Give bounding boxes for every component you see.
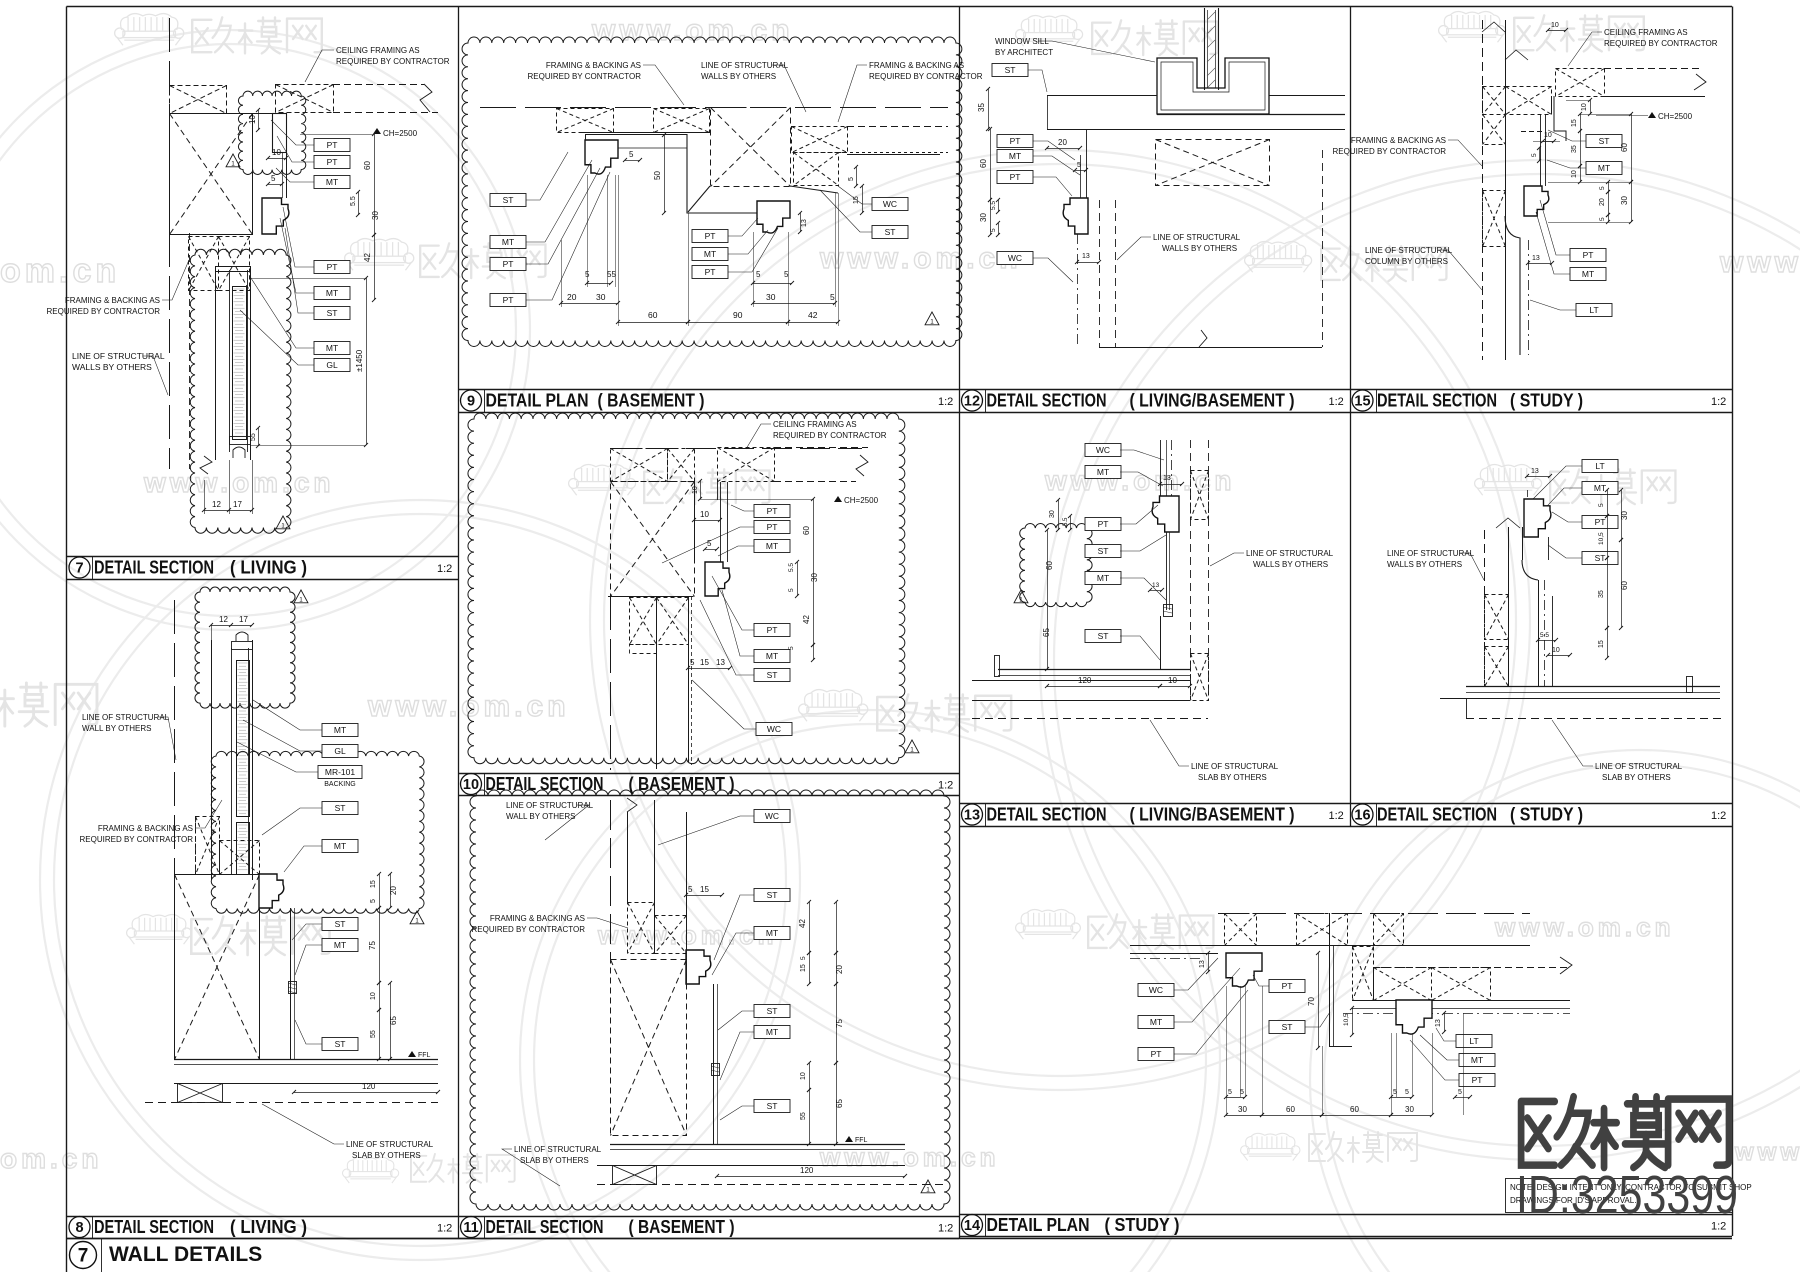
svg-text:5: 5 — [1228, 1089, 1232, 1096]
svg-text:CH=2500: CH=2500 — [383, 129, 418, 138]
svg-text:ST: ST — [767, 1006, 778, 1016]
panel 7 dim 10 vertical — [248, 108, 260, 132]
panel 14 center wall verticals — [1329, 913, 1352, 1047]
panel 7 line-of-structural-walls note — [72, 351, 168, 395]
svg-text:65: 65 — [389, 1016, 398, 1025]
watermark www.om.cn row3 mid — [1044, 465, 1236, 496]
svg-text:1:2: 1:2 — [437, 563, 452, 575]
svg-text:GL: GL — [326, 360, 338, 370]
svg-text:ST: ST — [1098, 631, 1109, 641]
svg-text:MT: MT — [1471, 1055, 1483, 1065]
panel 16 label LT — [1532, 460, 1618, 501]
panel 9 label MT left — [490, 160, 592, 249]
panel 8 warning triangle top — [294, 590, 308, 604]
svg-text:30: 30 — [1238, 1105, 1247, 1114]
watermark sofa+logo row4 mid — [799, 690, 1012, 732]
panel 9 wall band below hatches — [580, 133, 709, 135]
watermark www.om.cn bottom-center — [819, 1142, 1000, 1172]
svg-text:ST: ST — [327, 308, 338, 318]
svg-text:PT: PT — [503, 259, 514, 269]
svg-text:75: 75 — [368, 941, 377, 950]
svg-text:DETAIL SECTION: DETAIL SECTION — [987, 805, 1107, 825]
svg-text:17: 17 — [233, 500, 242, 509]
svg-text:60: 60 — [1286, 1105, 1295, 1114]
panel 9 warning triangle — [925, 312, 939, 326]
svg-text:1: 1 — [926, 1187, 930, 1194]
panel 11 slab hatch box — [613, 1166, 657, 1185]
panel 7 dim 10 horizontal — [266, 148, 288, 160]
panel 13 backing block — [1163, 605, 1173, 617]
svg-text:PT: PT — [327, 140, 338, 150]
svg-text:DETAIL SECTION: DETAIL SECTION — [1377, 391, 1497, 411]
svg-text:30: 30 — [1620, 511, 1629, 520]
panel 15 furring verticals — [1541, 96, 1552, 186]
svg-text:1: 1 — [281, 523, 285, 530]
panel 7 dims 12 17 bottom — [202, 460, 254, 514]
svg-text:WALLS BY OTHERS: WALLS BY OTHERS — [701, 72, 776, 81]
title bar panel 7 — [67, 556, 459, 580]
svg-text:5: 5 — [1599, 217, 1606, 221]
panel 14 dim extension verticals — [1227, 986, 1464, 1115]
panel 12 window frame head — [1157, 58, 1345, 115]
panel 9 hatch cells top-left — [557, 109, 710, 133]
panel 10 long dashed structural line — [610, 596, 612, 770]
panel 14 top dashed band — [1130, 914, 1530, 946]
panel 7 wall finish lines — [283, 152, 287, 198]
panel 15 dim 60 chain — [1548, 112, 1633, 184]
panel 12 mold profile — [1063, 198, 1088, 234]
panel 14 label ST mid — [1269, 1012, 1330, 1034]
svg-text:DETAIL PLAN: DETAIL PLAN — [486, 391, 589, 411]
svg-text:REQUIRED BY CONTRACTOR: REQUIRED BY CONTRACTOR — [336, 57, 450, 66]
svg-text:30: 30 — [766, 292, 776, 302]
panel 10 label WC — [692, 680, 792, 736]
panel 8 line-of-structural-wall note — [82, 713, 176, 760]
svg-text:PT: PT — [1010, 136, 1021, 146]
panel 14 label PT left — [1138, 990, 1248, 1061]
svg-text:15: 15 — [370, 880, 377, 888]
column divider 1 — [458, 7, 460, 1239]
svg-text:15: 15 — [1598, 640, 1605, 648]
panel 15 dim 13 — [1526, 255, 1554, 265]
title bar panel 9 — [458, 389, 959, 413]
panel 9 big hatch square — [711, 108, 791, 187]
svg-text:ST: ST — [1595, 553, 1606, 563]
panel 8 label GL — [243, 720, 358, 758]
svg-text:13: 13 — [1435, 1019, 1442, 1027]
svg-text:5.5: 5.5 — [1063, 517, 1069, 526]
panel 9 label PT left — [490, 168, 600, 271]
panel 11 skirting verticals — [714, 984, 718, 1144]
title bar panel 10 — [458, 773, 959, 796]
svg-text:LINE OF STRUCTURAL: LINE OF STRUCTURAL — [701, 61, 789, 70]
svg-text:5: 5 — [788, 588, 795, 592]
svg-text:1: 1 — [910, 747, 914, 754]
panel 15 dim 10 mid — [1546, 22, 1568, 32]
svg-text:8: 8 — [75, 1220, 83, 1236]
watermark www.om.cn top-center — [591, 14, 794, 47]
panel 7 dim 1450 — [250, 276, 368, 447]
svg-text:www.: www. — [1734, 1139, 1800, 1166]
svg-text:5.5: 5.5 — [350, 196, 357, 206]
panel 11 mid hatch cells — [628, 903, 687, 954]
svg-text:12: 12 — [219, 615, 228, 624]
panel 14 dim row 5s — [1224, 1089, 1472, 1099]
svg-text:PT: PT — [705, 267, 716, 277]
svg-text:FRAMING & BACKING AS: FRAMING & BACKING AS — [546, 61, 641, 70]
svg-text:ST: ST — [503, 195, 514, 205]
panel 15 column note — [1365, 246, 1482, 290]
panel 16 floor lines — [1440, 677, 1720, 699]
svg-text:60: 60 — [1045, 561, 1054, 570]
svg-text:13: 13 — [716, 658, 725, 667]
svg-text:REQUIRED BY CONTRACTOR: REQUIRED BY CONTRACTOR — [869, 72, 983, 81]
svg-text:13: 13 — [1082, 253, 1090, 260]
svg-text:REQUIRED BY CONTRACTOR: REQUIRED BY CONTRACTOR — [47, 307, 161, 316]
svg-text:DETAIL SECTION: DETAIL SECTION — [987, 391, 1107, 411]
svg-text:REQUIRED BY CONTRACTOR: REQUIRED BY CONTRACTOR — [528, 72, 642, 81]
svg-text:35: 35 — [1571, 145, 1578, 153]
panel 13 label WC — [1085, 444, 1164, 461]
panel 12 dim 20 — [1045, 138, 1082, 150]
watermark sofa+logo row5 left — [127, 914, 330, 954]
svg-text:5.5: 5.5 — [1540, 632, 1549, 639]
title bar panel 15 — [1350, 389, 1733, 413]
panel 8 backing block — [288, 982, 297, 994]
svg-text:1:2: 1:2 — [938, 1223, 953, 1235]
panel 13 label ST lower — [1085, 630, 1160, 661]
panel 11 warning triangle — [921, 1180, 935, 1194]
svg-text:13: 13 — [801, 219, 808, 227]
panel 7 label ST 6 — [285, 228, 350, 320]
panel 11 dim 5 15 — [684, 885, 724, 897]
panel 8 label MT lower — [284, 840, 358, 873]
svg-text:PT: PT — [327, 262, 338, 272]
panel 15 left wall hatch cells — [1483, 87, 1552, 247]
svg-text:WC: WC — [765, 811, 779, 821]
svg-text:CEILING FRAMING AS: CEILING FRAMING AS — [336, 46, 420, 55]
svg-text:DETAIL SECTION: DETAIL SECTION — [486, 1217, 604, 1237]
panel 9 label PT left lower — [490, 172, 610, 307]
panel 8 structural wall dashed line — [174, 600, 176, 1059]
svg-text:1: 1 — [930, 319, 934, 326]
panel 15 dim 10 horizontal — [1533, 132, 1560, 143]
panel 7 structural wall dashed line — [169, 18, 171, 469]
title bar panel 16 — [1350, 803, 1733, 827]
svg-text:42: 42 — [808, 310, 818, 320]
panel 12 label MT — [997, 150, 1080, 176]
panel 10 label ST lower — [700, 600, 790, 682]
panel 14 label MT right — [1420, 1035, 1495, 1067]
svg-text:LINE OF STRUCTURAL: LINE OF STRUCTURAL — [514, 1145, 602, 1154]
panel 16 wall hatch cells — [1485, 595, 1509, 687]
panel 9 right dashed wall lines — [838, 127, 948, 155]
panel 15 label MT — [1547, 160, 1622, 175]
svg-text:10: 10 — [1581, 103, 1588, 111]
svg-text:55: 55 — [250, 433, 257, 441]
svg-text:60: 60 — [802, 526, 811, 535]
svg-text:10: 10 — [1544, 132, 1552, 139]
panel 12 label WC — [997, 252, 1073, 283]
svg-text:MT: MT — [502, 237, 514, 247]
svg-text:35: 35 — [1598, 590, 1605, 598]
svg-text:120: 120 — [1078, 676, 1092, 685]
panel 10 warning triangle — [905, 740, 919, 754]
svg-text:MT: MT — [334, 940, 346, 950]
panel 14 label PT mid — [1253, 975, 1305, 993]
svg-text:10: 10 — [800, 1072, 807, 1080]
svg-text:60: 60 — [363, 161, 372, 170]
svg-text:www.om.cn: www.om.cn — [143, 467, 335, 498]
panel 8 dim chain right — [368, 872, 398, 1061]
panel 7 warning triangle bottom — [276, 516, 290, 530]
panel 15 mold profile — [1524, 186, 1549, 216]
panel 15 dim 5 small — [1531, 146, 1541, 163]
panel 14 dim 13 left — [1199, 951, 1210, 974]
svg-text:ST: ST — [1599, 136, 1610, 146]
svg-text:60: 60 — [1620, 143, 1629, 152]
svg-text:( LIVING/BASEMENT ): ( LIVING/BASEMENT ) — [1130, 391, 1295, 411]
panel 12 window mullion — [1205, 8, 1219, 90]
svg-text:PT: PT — [767, 522, 778, 532]
panel 7 cornice mold profile — [262, 198, 289, 234]
svg-text:10,5: 10,5 — [1598, 532, 1605, 545]
panel 15 dim 15 35 10 chain — [1571, 112, 1582, 184]
watermark www.om.cn row5 — [597, 920, 778, 950]
panel 7 label PT 4 — [283, 207, 350, 274]
svg-text:55: 55 — [800, 1112, 807, 1120]
svg-text:ST: ST — [335, 1039, 346, 1049]
svg-text:42: 42 — [802, 615, 811, 624]
panel 15 label PT — [1540, 200, 1606, 262]
svg-text:PT: PT — [767, 506, 778, 516]
svg-text:10: 10 — [700, 510, 709, 519]
svg-text:PT: PT — [1583, 250, 1594, 260]
svg-text:DETAIL SECTION: DETAIL SECTION — [94, 558, 214, 578]
panel 7 revision cloud tall — [190, 249, 291, 533]
panel 11 structural wall note — [506, 801, 594, 840]
panel 12 label ST — [992, 64, 1047, 93]
panel 12 dim 35 — [977, 87, 990, 131]
svg-text:1:2: 1:2 — [1329, 810, 1344, 822]
panel 8 slab lines — [145, 1084, 438, 1103]
svg-text:PT: PT — [767, 625, 778, 635]
svg-text:ST: ST — [335, 803, 346, 813]
svg-text:13: 13 — [1163, 475, 1171, 482]
panel 8 framing-backing note — [80, 800, 223, 844]
svg-text:WC: WC — [767, 724, 781, 734]
panel 13 label MT top — [1085, 466, 1163, 487]
svg-text:WALLS BY OTHERS: WALLS BY OTHERS — [72, 362, 152, 372]
panel 9 dim 15 5 right — [848, 165, 864, 215]
svg-text:MT: MT — [766, 1027, 778, 1037]
panel 13 label ST — [1085, 535, 1166, 558]
panel 9 mold profile middle — [757, 201, 790, 233]
panel 8 label MT — [253, 700, 358, 737]
panel 13 revision cloud small — [1020, 524, 1092, 607]
svg-text:PT: PT — [705, 231, 716, 241]
panel 9 revision cloud — [462, 37, 962, 346]
panel 9 wall diagonal — [688, 186, 838, 212]
svg-text:±1450: ±1450 — [355, 349, 364, 372]
svg-text:MT: MT — [766, 928, 778, 938]
panel 12 bottom break — [1099, 330, 1322, 348]
svg-text:LINE OF STRUCTURAL: LINE OF STRUCTURAL — [1246, 549, 1334, 558]
panel 9 label MT mid — [692, 230, 768, 261]
svg-text:MT: MT — [334, 725, 346, 735]
svg-text:DETAIL SECTION: DETAIL SECTION — [94, 1217, 214, 1237]
panel 8 slab hatch box — [178, 1084, 223, 1103]
panel 11 revision cloud — [470, 790, 950, 1210]
panel 10 CH=2500 marker — [700, 496, 879, 505]
watermark logo left edge row4 — [0, 683, 97, 726]
panel 16 cove profile — [1522, 560, 1545, 686]
svg-text:BACKING: BACKING — [324, 781, 356, 788]
panel 9 structural walls note — [701, 61, 806, 112]
panel 7 glazing bottom cap — [230, 437, 251, 459]
panel 10 label MT 3 — [718, 540, 790, 557]
svg-text:MT: MT — [1594, 483, 1606, 493]
panel 7 dim 5 — [266, 174, 284, 186]
panel 8 top cloud — [195, 587, 295, 708]
svg-text:LINE OF STRUCTURAL: LINE OF STRUCTURAL — [1365, 246, 1453, 255]
panel 13 hatch box bottom — [1191, 654, 1209, 701]
panel 9 bottom dim row3 — [616, 310, 840, 324]
svg-text:www.om.cn: www.om.cn — [1494, 912, 1675, 942]
svg-text:LINE OF STRUCTURAL: LINE OF STRUCTURAL — [1595, 762, 1683, 771]
svg-text:5: 5 — [271, 174, 276, 183]
watermark www.om.cn row2 center — [819, 242, 1022, 275]
svg-text:5: 5 — [756, 270, 761, 279]
sheet frame right border — [1732, 7, 1734, 1237]
svg-text:( LIVING/BASEMENT ): ( LIVING/BASEMENT ) — [1130, 805, 1295, 825]
svg-text:GL: GL — [334, 746, 346, 756]
title bar panel 13 — [959, 803, 1350, 827]
sheet frame left border — [66, 7, 68, 1273]
svg-text:5: 5 — [848, 177, 855, 181]
panel 10 dim 10 rotated — [692, 479, 702, 501]
svg-text:20: 20 — [835, 965, 844, 974]
svg-text:17: 17 — [239, 615, 248, 624]
panel 9 dim 5 left — [623, 150, 642, 162]
title bar panel 8 — [67, 1216, 459, 1239]
panel 10 hatch cells ceiling — [611, 449, 695, 482]
panel 11 big hatch box — [611, 960, 687, 1136]
svg-text:( BASEMENT ): ( BASEMENT ) — [598, 391, 705, 411]
svg-text:MT: MT — [1150, 1017, 1162, 1027]
panel 16 dims 5.5 10 — [1536, 632, 1572, 657]
panel 16 label ST — [1548, 545, 1618, 565]
svg-text:120: 120 — [362, 1082, 376, 1091]
panel 11 dim chain right — [798, 900, 844, 1146]
svg-text:55: 55 — [370, 1030, 377, 1038]
panel 13 finish verticals — [1167, 532, 1170, 610]
svg-text:12: 12 — [964, 394, 980, 410]
svg-text:PT: PT — [1151, 1049, 1162, 1059]
svg-text:LINE OF STRUCTURAL: LINE OF STRUCTURAL — [506, 801, 594, 810]
svg-text:FRAMING & BACKING AS: FRAMING & BACKING AS — [869, 61, 964, 70]
svg-text:( LIVING ): ( LIVING ) — [230, 558, 307, 578]
panel 16 mold profile — [1524, 499, 1551, 537]
panel 7 lower hatch cells — [189, 237, 250, 291]
svg-text:7: 7 — [75, 561, 83, 577]
panel 7 label PT 1 — [271, 120, 350, 152]
panel 7 label MT 5 — [280, 218, 350, 300]
svg-text:55: 55 — [607, 270, 616, 279]
panel 10 lower hatch cells — [630, 598, 689, 654]
svg-text:LT: LT — [1469, 1036, 1478, 1046]
panel 13 dim 120 10 — [1045, 676, 1192, 688]
svg-text:CH=2500: CH=2500 — [844, 496, 879, 505]
panel 14 mold profile left — [1226, 953, 1262, 987]
panel 8 framing hatch cells — [196, 817, 260, 875]
svg-text:5: 5 — [370, 899, 377, 903]
svg-text:70: 70 — [1307, 997, 1316, 1006]
panel 11 slab lines — [597, 1166, 944, 1185]
panel 7 wall hatch box large — [170, 114, 253, 235]
panel 13 wall dashed verticals — [1191, 440, 1209, 700]
svg-text:60: 60 — [1350, 1105, 1359, 1114]
svg-text:MT: MT — [766, 541, 778, 551]
panel 13 wall dash-dot vertical — [1161, 440, 1172, 496]
svg-text:LT: LT — [1589, 305, 1598, 315]
svg-text:WALLS BY OTHERS: WALLS BY OTHERS — [1162, 244, 1237, 253]
svg-text:LINE OF STRUCTURAL: LINE OF STRUCTURAL — [346, 1140, 434, 1149]
svg-text:1: 1 — [1019, 597, 1023, 604]
panel 10 label MT lower — [722, 590, 790, 663]
panel 9 label ST left — [490, 152, 568, 207]
panel 8 label MR-101 BACKING — [237, 742, 362, 788]
panel 8 framing dashed vertical — [195, 816, 197, 874]
svg-text:5: 5 — [1405, 1089, 1409, 1096]
svg-text:PT: PT — [1098, 519, 1109, 529]
watermark sofa+logo row3 right — [1475, 465, 1676, 505]
svg-text:5: 5 — [690, 658, 695, 667]
svg-text:10: 10 — [692, 486, 699, 494]
panel 7 label GL 8 — [240, 310, 350, 372]
panel 13 slab lines — [972, 701, 1208, 719]
svg-text:ST: ST — [885, 227, 896, 237]
svg-text:CH=2500: CH=2500 — [1658, 112, 1693, 121]
svg-text:5: 5 — [707, 539, 712, 548]
svg-text:ST: ST — [767, 890, 778, 900]
panel 8 wall assembly verticals top — [212, 632, 253, 880]
svg-text:75: 75 — [835, 1019, 844, 1028]
panel 13 label MT — [1085, 572, 1166, 601]
svg-text:5: 5 — [688, 885, 693, 894]
panel 11 label WC — [658, 810, 790, 846]
panel 11 FFL marker — [845, 1136, 868, 1144]
panel 16 dim chain right — [1598, 488, 1629, 660]
panel 10 wall verticals lower — [657, 596, 692, 769]
svg-text:10: 10 — [370, 992, 377, 1000]
svg-text:42: 42 — [798, 919, 807, 928]
svg-text:MT: MT — [326, 343, 338, 353]
svg-text:14: 14 — [964, 1218, 980, 1234]
panel 7 framing dashed line inner — [189, 233, 191, 469]
panel 10 label PT top — [731, 505, 790, 518]
watermark www.om.cn row3 left — [143, 467, 335, 498]
svg-text:ST: ST — [767, 1101, 778, 1111]
panel 9 wall edge left step — [618, 134, 757, 213]
svg-text:LINE OF STRUCTURAL: LINE OF STRUCTURAL — [82, 713, 170, 722]
watermark www.om.cn row5 right — [1494, 912, 1675, 942]
svg-text:5.5: 5.5 — [788, 563, 795, 572]
svg-text:9: 9 — [467, 394, 475, 410]
panel 8 label ST base — [295, 1020, 358, 1051]
svg-text:www.: www. — [1719, 246, 1800, 279]
panel 14 dim row 30 60 60 30 — [1224, 1105, 1434, 1117]
